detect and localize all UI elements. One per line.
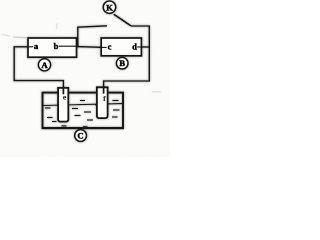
svg-text:C: C [77, 131, 83, 141]
svg-text:b: b [54, 41, 59, 51]
svg-text:B: B [119, 58, 125, 68]
svg-text:a: a [34, 41, 39, 51]
svg-text:K: K [106, 2, 113, 12]
svg-text:c: c [108, 42, 112, 52]
svg-text:A: A [41, 60, 48, 70]
svg-text:d: d [132, 42, 137, 52]
